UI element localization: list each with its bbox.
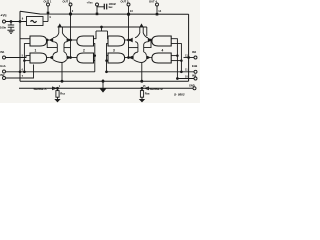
- wire gate6 input upper: [94, 55, 95, 57]
- svg-text:RSB: RSB: [145, 92, 150, 96]
- node B sense: [141, 80, 143, 82]
- node A lower east: [70, 57, 72, 59]
- arrow SENSE B: [145, 87, 149, 90]
- left frame wire: [19, 11, 21, 81]
- gnd pin tick: [102, 79, 105, 81]
- bridge B tube walls: [140, 27, 143, 33]
- bridge A upper transistor: [58, 23, 62, 26]
- svg-text:EnA: EnA: [0, 64, 5, 68]
- wire OUT3 column: [128, 14, 130, 58]
- node enA frame: [19, 71, 21, 73]
- svg-text:2: 2: [83, 48, 85, 52]
- svg-text:SENSE A: SENSE A: [34, 87, 48, 91]
- wire Vss drop: [101, 27, 103, 31]
- wire gate1 input lower: [24, 44, 30, 72]
- wire gate3 input upper hook: [107, 35, 110, 39]
- svg-text:6: 6: [22, 68, 24, 71]
- bridge A lower west arrow: [49, 55, 53, 60]
- gate 5: [30, 53, 47, 63]
- wire Vss down: [96, 6, 98, 14]
- svg-text:4: 4: [162, 48, 164, 52]
- wire A west column: [47, 40, 57, 48]
- node enA branch: [24, 71, 26, 73]
- wire gate8 lower stub: [171, 60, 181, 62]
- wire gate4 input lower: [171, 44, 181, 72]
- node sense B: [141, 87, 143, 89]
- bridge A upper east arrow: [67, 38, 71, 43]
- node gate8 lower: [181, 60, 183, 62]
- capacitor C2: [97, 4, 107, 10]
- wire OUT1 down: [70, 6, 72, 14]
- bridge B upper transistor: [140, 23, 144, 26]
- svg-text:15: 15: [143, 85, 146, 88]
- svg-text:SENSE B: SENSE B: [150, 87, 164, 91]
- gate 1: [30, 36, 47, 46]
- node sense A: [57, 87, 59, 89]
- wire gate1 input upper: [20, 38, 30, 40]
- bridge B upper east arrow: [148, 38, 152, 43]
- svg-text:1: 1: [59, 85, 61, 88]
- wire OUT4 down: [156, 6, 158, 14]
- node gate5 stub: [24, 60, 26, 62]
- svg-text:10: 10: [185, 75, 188, 78]
- bridge A bell west flare: [53, 52, 62, 63]
- wire B east jog: [144, 40, 151, 48]
- wire gate4 output: [151, 39, 153, 41]
- wire gnd drop: [102, 81, 104, 88]
- svg-text:11: 11: [185, 68, 188, 71]
- svg-text:RSA: RSA: [60, 92, 65, 96]
- capacitor C1: [8, 22, 14, 30]
- ground main: [100, 89, 107, 93]
- bridge A upper west arrow: [49, 38, 53, 43]
- arrow SENSE A: [53, 87, 57, 90]
- node OUT3 rail: [127, 13, 129, 15]
- bridge A lower east arrow: [67, 55, 71, 60]
- node A west top: [46, 39, 48, 41]
- wire gate8 upper stub: [171, 55, 177, 57]
- node gate8 upper: [177, 55, 179, 57]
- wire gate5 output: [47, 57, 50, 59]
- supply distribution wire y27: [58, 26, 147, 28]
- bridge A upper west arm: [53, 33, 59, 52]
- node gate4 upper vert: [177, 78, 179, 80]
- wire OUT1 column: [70, 14, 72, 58]
- terminal In2: [3, 77, 6, 80]
- svg-text:IN4: IN4: [192, 50, 197, 54]
- wire gate7 lower stub: [107, 60, 109, 62]
- node B east top: [150, 39, 152, 41]
- wire gate4 input upper: [171, 39, 177, 79]
- wire gate3 input lower: [107, 44, 109, 72]
- wire box to terminal: [43, 21, 48, 23]
- svg-text:+VS: +VS: [0, 14, 7, 18]
- gate 7: [108, 53, 125, 63]
- gate 3: [108, 36, 125, 46]
- wire B tap west: [129, 47, 138, 49]
- wire enA end: [6, 71, 95, 73]
- bottom sense rail: [19, 87, 193, 89]
- node OUT1 rail: [69, 13, 71, 15]
- terminal GND: [193, 87, 196, 90]
- pin marks right: [185, 54, 188, 78]
- node C1 junction: [10, 21, 12, 23]
- node gate4 lower vert: [181, 71, 183, 73]
- bridge A upper east arm: [62, 33, 67, 52]
- svg-text:EnB: EnB: [192, 64, 197, 68]
- bridge B upper west arm: [135, 33, 140, 52]
- wire gate1 output: [47, 39, 50, 41]
- ground RSB: [139, 99, 145, 102]
- bridge B lower east arrow: [146, 55, 151, 60]
- gate 6: [77, 53, 94, 63]
- svg-text:IN2: IN2: [0, 73, 5, 77]
- svg-text:13: 13: [130, 9, 133, 13]
- terminal Vss: [96, 3, 99, 6]
- bridge B bell west flare: [134, 52, 142, 63]
- terminal +Vs: [3, 20, 6, 23]
- bridge B upper west arrow: [128, 38, 132, 43]
- svg-text:IN3: IN3: [192, 73, 197, 77]
- gate 2: [77, 36, 94, 46]
- wire In1: [6, 56, 31, 58]
- wire gate5 lower stub: [24, 60, 30, 62]
- wire gate7 output: [125, 57, 129, 59]
- wire gate7 upper stub: [107, 55, 109, 57]
- wire gate6 output: [71, 57, 77, 59]
- terminal VREF: [47, 3, 50, 6]
- svg-text:3: 3: [113, 48, 115, 52]
- wire In4: [184, 57, 195, 59]
- svg-text:IN1: IN1: [0, 50, 5, 54]
- node B lower west: [128, 57, 130, 59]
- node gate6 upper: [94, 55, 96, 57]
- terminal In1: [3, 56, 6, 59]
- terminal EnB: [194, 70, 197, 73]
- bridge B upper east arm: [143, 33, 148, 52]
- wire OUT3 down: [128, 6, 130, 14]
- node VREF rail: [47, 12, 50, 15]
- svg-text:1: 1: [35, 48, 37, 52]
- wire gate2 output: [71, 39, 77, 41]
- wire logic feed bar: [96, 30, 108, 32]
- terminal In3: [194, 77, 197, 80]
- gate 4: [152, 36, 171, 46]
- wire A sense stem: [61, 63, 63, 82]
- wire +Vs to box: [6, 21, 27, 23]
- terminal OUT1: [69, 3, 72, 6]
- terminal EnA: [3, 70, 6, 73]
- wire gate2 input lower: [94, 44, 95, 72]
- bridge B bell east flare: [142, 52, 147, 63]
- svg-text:ker.: ker.: [109, 5, 114, 9]
- wire B sense stem: [141, 63, 143, 82]
- wire In3: [177, 78, 194, 80]
- terminal OUT3: [127, 3, 130, 6]
- top rail +Vs: [20, 11, 189, 14]
- node A sense: [61, 80, 63, 82]
- terminal In4: [194, 56, 197, 59]
- wire A tap east: [64, 47, 71, 49]
- svg-text:9: 9: [22, 17, 24, 21]
- node In4 frame: [188, 57, 190, 59]
- wire In2: [6, 65, 34, 79]
- wire gate3 output: [125, 39, 129, 41]
- node gnd rail1: [102, 80, 104, 82]
- svg-text:+VSS: +VSS: [87, 0, 94, 4]
- bottom ground rail: [20, 80, 189, 82]
- bridge A tube walls: [59, 27, 63, 33]
- node frame junction: [19, 21, 21, 23]
- block U9 voltage reference box: [27, 17, 44, 26]
- right frame wire: [188, 14, 190, 81]
- svg-text:GND: GND: [189, 84, 195, 88]
- svg-text:S- 9502: S- 9502: [174, 93, 185, 97]
- bridge B lower west arrow: [128, 55, 133, 60]
- svg-text:100n: 100n: [0, 26, 6, 30]
- wire VREF down: [47, 6, 49, 22]
- node Vss rail: [96, 13, 99, 16]
- bridge A bell east flare: [62, 52, 67, 63]
- wire feed gate2: [94, 31, 97, 39]
- ground RSA: [54, 99, 60, 102]
- terminal OUT4: [156, 3, 159, 6]
- wire feed gate3: [107, 31, 109, 35]
- node B west: [128, 39, 130, 41]
- wire B east column: [146, 27, 148, 36]
- svg-text:5: 5: [22, 54, 24, 57]
- node OUT4 rail: [156, 13, 159, 16]
- resistor RSA: [56, 88, 59, 99]
- node gate7 stub: [106, 60, 108, 62]
- svg-text:9: 9: [50, 16, 52, 19]
- gate 8: [152, 53, 171, 63]
- wire enB run: [107, 71, 195, 73]
- squiggle inside U9: [31, 21, 37, 23]
- svg-text:100nF: 100nF: [109, 2, 117, 6]
- svg-text:14: 14: [158, 9, 161, 13]
- svg-text:2: 2: [72, 9, 74, 13]
- wire gate6 input lower: [94, 60, 95, 62]
- node A east: [70, 39, 72, 41]
- ground C1: [7, 30, 14, 33]
- node Vss drop: [101, 26, 103, 28]
- node enB branch: [106, 71, 108, 73]
- resistor RSB: [140, 88, 143, 99]
- wire gate8 output: [150, 57, 152, 59]
